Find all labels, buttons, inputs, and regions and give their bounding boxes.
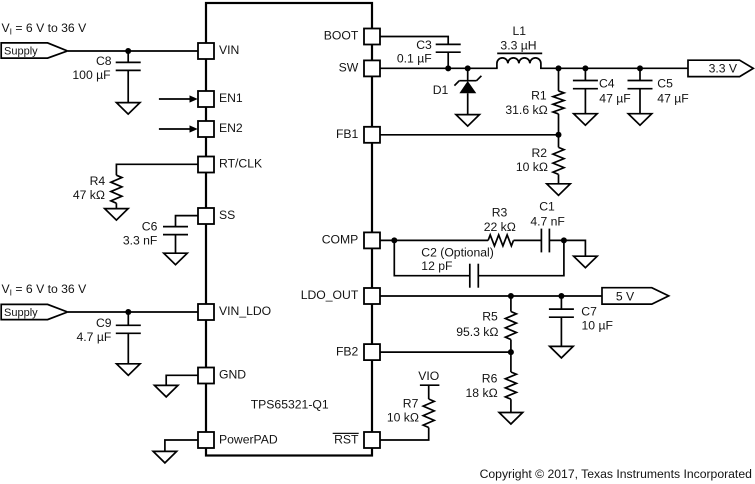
svg-text:VI = 6 V to 36 V: VI = 6 V to 36 V [2, 282, 88, 298]
wire FB1 node to R2 [558, 135, 560, 148]
wire R4 to ground [115, 203, 117, 208]
svg-text:VIN: VIN [219, 43, 239, 57]
pin EN2 [198, 121, 243, 137]
ground under C4 [574, 114, 598, 126]
junction dot C7 tap [558, 293, 564, 299]
svg-text:VIO: VIO [418, 369, 439, 383]
svg-text:R7: R7 [403, 397, 419, 411]
svg-text:3.3 nF: 3.3 nF [123, 234, 158, 248]
wire R1 to FB1 rail [558, 114, 560, 135]
svg-text:10 µF: 10 µF [582, 319, 613, 333]
wire R5 to FB2 rail [510, 340, 512, 353]
IC U1 TPS65321-Q1 body [206, 3, 372, 456]
wire LDO_OUT rail [380, 295, 602, 297]
pin FB2 [336, 344, 380, 360]
pin VIN_LDO [198, 304, 271, 320]
svg-text:0.1 µF: 0.1 µF [397, 51, 432, 65]
wire C2 branch left leg [394, 240, 470, 275]
capacitor C4 [573, 77, 631, 106]
ground at GND pin [154, 385, 178, 397]
wire C9 top [127, 312, 129, 325]
pin RST [333, 432, 380, 448]
capacitor C8 [72, 54, 140, 82]
junction dot D1/SW [465, 65, 471, 71]
pin BOOT [324, 29, 380, 45]
diode D1 schottky [433, 68, 482, 114]
wire SW node to R1 [558, 68, 560, 91]
wire FB1 rail [380, 134, 559, 136]
svg-text:22 kΩ: 22 kΩ [484, 220, 516, 234]
wire R2 to ground [558, 174, 560, 183]
pin FB1 [336, 127, 380, 143]
wire C7 to ground [560, 317, 562, 346]
junction dot FB2/R5/R6 [508, 349, 514, 355]
pin LDO_OUT [301, 288, 380, 304]
capacitor C1 [530, 200, 565, 253]
wire R3 to C1 [514, 239, 542, 241]
wire RT/CLK to R4 [116, 164, 198, 175]
svg-text:TPS65321-Q1: TPS65321-Q1 [251, 397, 329, 411]
svg-text:SS: SS [219, 208, 235, 222]
pin VIN [198, 43, 239, 59]
svg-text:C9: C9 [96, 316, 112, 330]
resistor R6 [466, 372, 517, 400]
ground under R4 [105, 209, 128, 221]
svg-text:C8: C8 [96, 54, 112, 68]
resistor R7 [387, 397, 434, 428]
svg-text:R5: R5 [482, 309, 498, 323]
wire PowerPAD to ground [165, 440, 198, 451]
wire LDO node to C7 [560, 296, 562, 309]
wire SW rail [380, 67, 498, 69]
svg-text:BOOT: BOOT [324, 29, 359, 43]
wire C9 to ground [127, 333, 129, 364]
wire C4 to ground [584, 89, 586, 114]
node 5 V output flag [602, 288, 669, 304]
wire SW node to C5 [639, 68, 641, 80]
wire EN2 arrow [159, 125, 198, 132]
svg-text:SW: SW [339, 61, 359, 75]
svg-text:LDO_OUT: LDO_OUT [301, 288, 359, 302]
pin GND [198, 368, 246, 384]
svg-text:Supply: Supply [4, 45, 38, 57]
wire C8 bottom [127, 70, 129, 102]
svg-text:C3: C3 [416, 38, 432, 52]
wire C2 branch right leg [478, 240, 564, 275]
wire C8 top [127, 51, 129, 62]
pin SW [339, 60, 380, 76]
capacitor C9 [77, 316, 141, 344]
wire GND pin to ground [166, 375, 198, 385]
ground at COMP network [574, 256, 598, 268]
svg-text:12 pF: 12 pF [421, 259, 452, 273]
resistor R2 [516, 146, 564, 174]
svg-text:47 µF: 47 µF [599, 92, 630, 106]
ground under D1 [456, 115, 480, 127]
svg-text:Copyright © 2017, Texas Instru: Copyright © 2017, Texas Instruments Inco… [480, 467, 752, 481]
junction dot C9 tap [125, 309, 131, 315]
wire L1 to 3.3V flag [540, 67, 688, 69]
svg-text:18 kΩ: 18 kΩ [466, 386, 498, 400]
wire C3 to SW rail [447, 52, 449, 68]
svg-text:PowerPAD: PowerPAD [219, 432, 278, 446]
svg-text:4.7 nF: 4.7 nF [530, 214, 565, 228]
wire SS to C6 [176, 216, 199, 227]
svg-text:R2: R2 [532, 146, 548, 160]
node Supply flag top [1, 43, 67, 58]
svg-text:R6: R6 [482, 372, 498, 386]
ground at PowerPAD [153, 451, 177, 463]
node Supply flag bottom [1, 304, 67, 319]
svg-text:C4: C4 [599, 77, 615, 91]
junction dot FB1/R1/R2 [556, 132, 562, 138]
resistor R4 [73, 174, 122, 203]
svg-text:R3: R3 [492, 206, 508, 220]
ground under C8 [116, 103, 140, 115]
svg-text:RST: RST [334, 432, 359, 446]
ground under C5 [628, 114, 652, 126]
capacitor C5 [628, 77, 689, 106]
resistor R1 [505, 89, 564, 117]
wire FB2 rail [380, 351, 511, 353]
svg-text:C6: C6 [142, 220, 158, 234]
junction dot COMP/C2 [391, 237, 397, 243]
junction dot C3/SW [445, 65, 451, 71]
junction dot C1/C2 [561, 237, 567, 243]
pin SS [198, 208, 235, 224]
wire C5 to ground [639, 89, 641, 114]
svg-text:EN2: EN2 [219, 121, 243, 135]
svg-text:R1: R1 [531, 89, 547, 103]
svg-text:R4: R4 [90, 174, 106, 188]
capacitor C2 [421, 246, 493, 288]
svg-text:3.3 µH: 3.3 µH [500, 39, 536, 53]
svg-text:10 kΩ: 10 kΩ [516, 160, 548, 174]
svg-text:EN1: EN1 [219, 91, 243, 105]
svg-text:L1: L1 [513, 24, 527, 38]
pin COMP [322, 232, 380, 248]
svg-text:3.3 V: 3.3 V [709, 61, 738, 75]
svg-text:GND: GND [219, 368, 246, 382]
svg-text:RT/CLK: RT/CLK [219, 157, 262, 171]
resistor R3 [484, 206, 516, 246]
wire C6 to ground [175, 235, 177, 254]
svg-text:95.3 kΩ: 95.3 kΩ [456, 325, 498, 339]
svg-text:FB1: FB1 [336, 127, 359, 141]
wire LDO node to R5 [510, 296, 512, 312]
junction dot R1 tap [556, 65, 562, 71]
resistor R5 [456, 309, 516, 339]
inductor L1 [497, 24, 542, 68]
svg-text:C2 (Optional): C2 (Optional) [421, 246, 493, 260]
wire FB2 node to R6 [510, 352, 512, 372]
wire R6 to ground [510, 399, 512, 412]
wire VIO to R7 [428, 385, 430, 399]
wire EN1 arrow [159, 95, 198, 102]
svg-text:FB2: FB2 [336, 344, 359, 358]
capacitor C3 [397, 38, 461, 65]
capacitor C7 [549, 305, 613, 333]
ground under C7 [550, 346, 574, 358]
ground under R6 [499, 413, 523, 425]
svg-text:D1: D1 [433, 83, 449, 97]
junction dot C4 tap [582, 65, 588, 71]
svg-text:4.7 µF: 4.7 µF [77, 330, 112, 344]
svg-text:C7: C7 [581, 305, 597, 319]
capacitor C6 [123, 220, 188, 248]
wire COMP rail [380, 239, 488, 241]
svg-text:47 µF: 47 µF [657, 92, 688, 106]
pin PowerPAD [198, 432, 278, 448]
wire SW node to C4 [584, 68, 586, 80]
svg-text:10 kΩ: 10 kΩ [387, 411, 419, 425]
wire supply to VIN [68, 50, 198, 52]
svg-text:Supply: Supply [4, 307, 38, 319]
svg-text:C5: C5 [657, 77, 673, 91]
wire C1 to ground corner [549, 240, 585, 256]
svg-text:31.6 kΩ: 31.6 kΩ [505, 103, 547, 117]
svg-text:C1: C1 [539, 200, 555, 214]
junction dot R5 tap [508, 293, 514, 299]
svg-text:5 V: 5 V [616, 289, 635, 303]
wire BOOT to C3 [380, 37, 448, 45]
junction dot C5 tap [637, 65, 643, 71]
node 3.3 V output flag [688, 60, 753, 76]
node VIO rail [418, 369, 439, 385]
junction dot C8 tap [125, 48, 131, 54]
ground under R2 [547, 184, 571, 196]
svg-text:COMP: COMP [322, 233, 359, 247]
svg-text:VI = 6 V to 36 V: VI = 6 V to 36 V [2, 21, 88, 37]
pin RT/CLK [198, 157, 262, 173]
pin EN1 [198, 91, 243, 107]
wire supply to VIN_LDO [68, 311, 198, 313]
svg-text:47 kΩ: 47 kΩ [73, 188, 105, 202]
ground under C6 [164, 253, 188, 265]
ground under C9 [117, 364, 141, 376]
svg-text:100 µF: 100 µF [72, 68, 110, 82]
wire R7 to RST pin [380, 428, 429, 441]
svg-text:VIN_LDO: VIN_LDO [219, 304, 271, 318]
